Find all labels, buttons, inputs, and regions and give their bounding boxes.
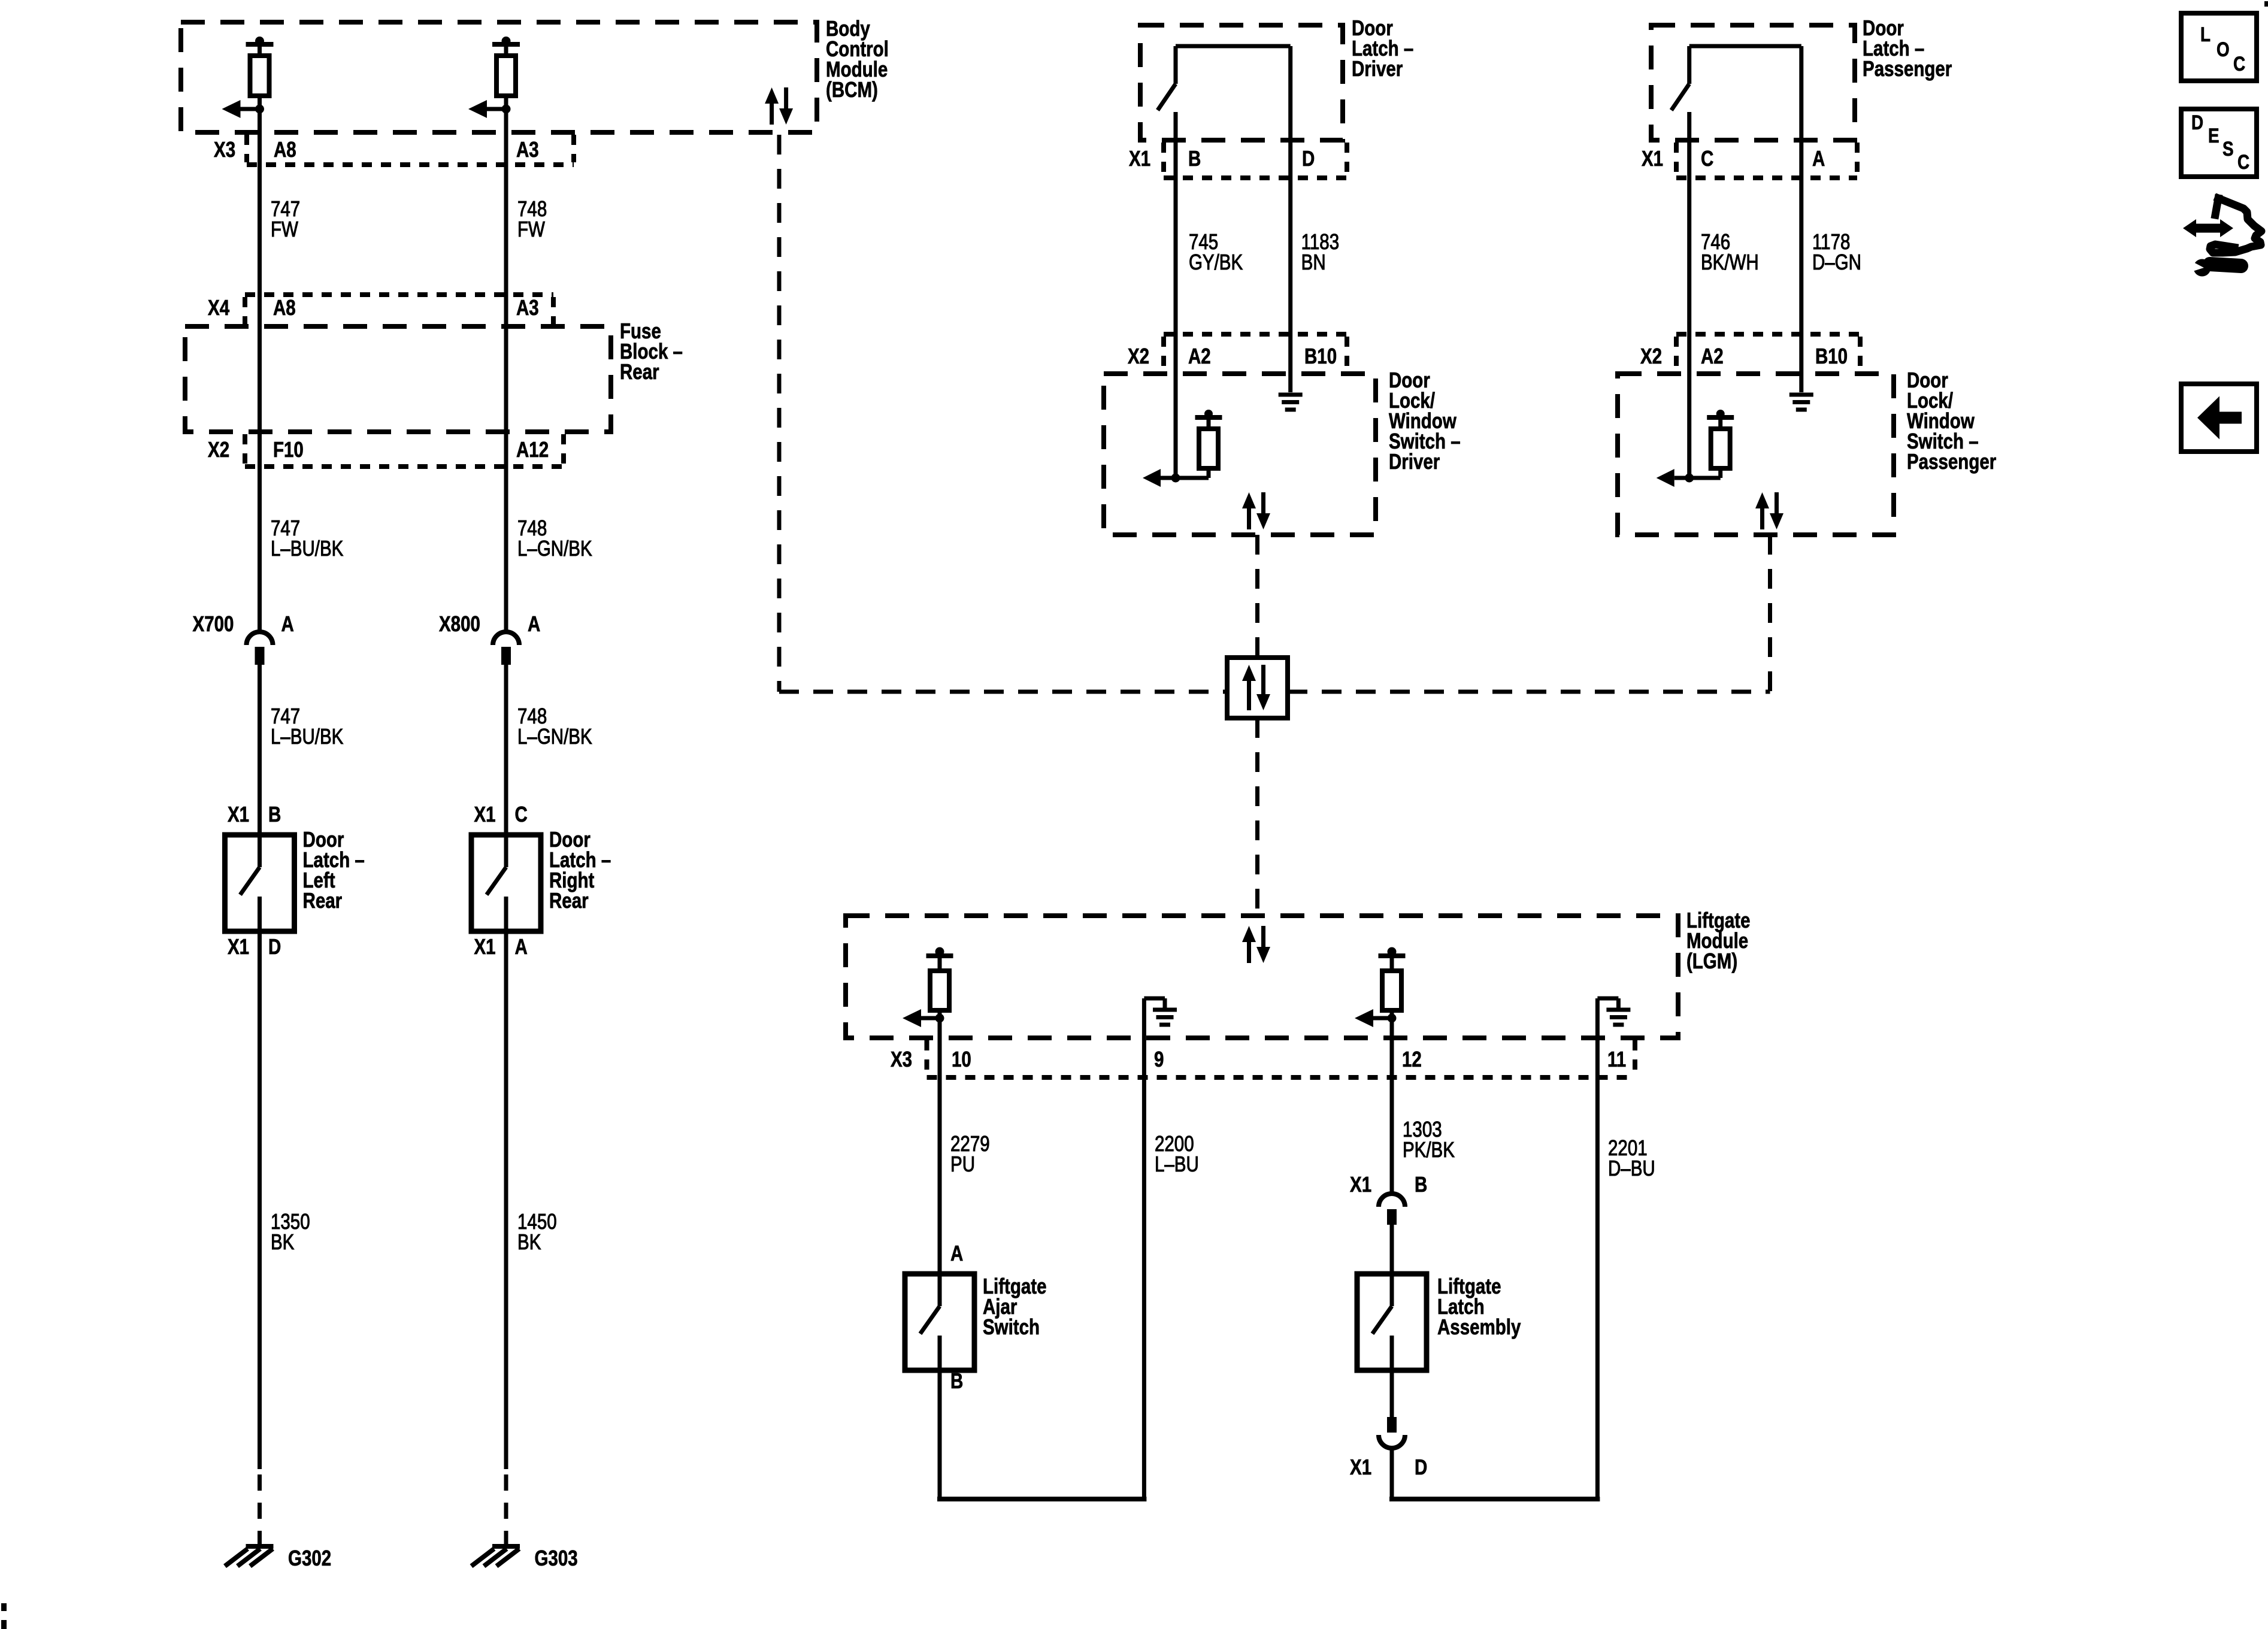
svg-text:L–BU/BK: L–BU/BK <box>271 536 343 560</box>
svg-text:A: A <box>281 611 294 635</box>
svg-text:G302: G302 <box>288 1546 331 1570</box>
pin 9 (LGM) <box>1154 1047 1164 1071</box>
connector band X2 (passenger switch) <box>1676 334 1860 371</box>
label: Door Lock/Window Switch - Driver <box>1389 368 1461 473</box>
svg-text:Rear: Rear <box>303 888 343 912</box>
svg-text:X1: X1 <box>1350 1172 1371 1196</box>
fuse/driver output symbol in BCM on circuit 748 <box>468 37 520 118</box>
component: Liftgate Latch Assembly box <box>1357 1274 1427 1370</box>
wire through fuse block 747 <box>258 326 262 432</box>
svg-text:O: O <box>2216 38 2230 60</box>
svg-text:GY/BK: GY/BK <box>1189 250 1243 274</box>
pin B10 (passenger switch) <box>1815 344 1848 368</box>
label: Fuse Block - Rear <box>620 319 683 383</box>
component: Door Latch - Left Rear switch box <box>225 835 295 931</box>
svg-text:A: A <box>1812 146 1825 170</box>
svg-text:A: A <box>515 934 528 958</box>
svg-text:Rear: Rear <box>549 888 589 912</box>
svg-text:10: 10 <box>952 1047 971 1071</box>
ground symbol in LGM (pin 11) <box>1597 998 1630 1038</box>
wire 1450 BK <box>504 931 508 1544</box>
pin B (latch assembly) <box>1415 1172 1427 1196</box>
connector band X1 (driver latch) <box>1164 143 1347 178</box>
connector band X2 (Fuse Block) dotted outline <box>245 434 564 467</box>
svg-text:L–GN/BK: L–GN/BK <box>517 724 592 748</box>
svg-text:Rear: Rear <box>620 359 659 383</box>
svg-text:B: B <box>950 1368 963 1392</box>
pin A12 <box>516 437 549 461</box>
module: Body Control Module (BCM) dashed box <box>181 22 817 132</box>
label X700 <box>193 611 234 635</box>
wire 1183 BN <box>1288 46 1292 392</box>
svg-text:FW: FW <box>271 217 298 241</box>
svg-text:12: 12 <box>1402 1047 1422 1071</box>
svg-text:Assembly: Assembly <box>1437 1315 1521 1339</box>
svg-text:D: D <box>2191 111 2203 134</box>
icon: connector view with wrench <box>2183 198 2261 277</box>
pin A (passenger latch) <box>1812 146 1825 170</box>
icon: DESC box <box>2181 109 2257 177</box>
connector band X2 (driver switch) <box>1164 334 1347 371</box>
wire label 748 L-GN/BK (lower) <box>517 704 592 748</box>
svg-text:X1: X1 <box>474 934 495 958</box>
label: Body Control Module (BCM) <box>826 16 889 101</box>
wire label 2200 L-BU <box>1155 1131 1199 1176</box>
svg-text:BK: BK <box>517 1230 541 1253</box>
serial data wire from BCM (vertical) <box>777 135 782 692</box>
label X2 (fuse block) <box>208 437 229 461</box>
wire label 1350 BK <box>271 1209 310 1253</box>
wire label 747 FW <box>271 196 300 241</box>
ground symbol inside driver switch (1183) <box>1279 395 1303 410</box>
connector X1 A row (right rear latch) <box>474 934 527 958</box>
connector X1 C row (right rear latch) <box>474 802 527 826</box>
svg-text:C: C <box>2237 150 2249 173</box>
svg-text:BN: BN <box>1301 250 1326 274</box>
svg-text:BK: BK <box>271 1230 294 1253</box>
wire label 1178 D-GN <box>1812 229 1861 274</box>
svg-text:X1: X1 <box>228 934 249 958</box>
pin 11 (LGM) <box>1607 1047 1626 1071</box>
serial data junction box <box>1227 658 1288 718</box>
wire from latch assembly D to circuit 2201 <box>1389 1448 1600 1499</box>
svg-text:C: C <box>515 802 528 826</box>
module: Door Latch - Passenger dashed box <box>1651 25 1855 140</box>
resistor/driver in LGM on circuit 1303 <box>1355 947 1406 1028</box>
wire label 1450 BK <box>517 1209 557 1253</box>
svg-text:X1: X1 <box>474 802 495 826</box>
pin D (latch assembly) <box>1415 1455 1427 1479</box>
pin B (ajar switch) <box>950 1368 963 1392</box>
svg-text:D–BU: D–BU <box>1608 1156 1655 1180</box>
label: Door Lock/Window Switch - Passenger <box>1907 368 1996 473</box>
wire 745 GY/BK <box>1174 112 1178 478</box>
serial data bus horizontal left <box>779 690 1227 694</box>
svg-text:X3: X3 <box>214 137 235 161</box>
serial data arrows in junction box <box>1242 665 1270 710</box>
ground G303 symbol <box>471 1546 520 1566</box>
label: Door Latch - Passenger <box>1863 16 1952 80</box>
serial data arrows (driver switch) <box>1242 492 1270 529</box>
svg-text:D: D <box>268 934 281 958</box>
ground G302 symbol <box>225 1546 274 1566</box>
svg-text:X700: X700 <box>193 611 234 635</box>
svg-text:B: B <box>268 802 281 826</box>
svg-text:A3: A3 <box>516 295 539 319</box>
serial data wire to Liftgate Module <box>1255 718 1259 916</box>
connector band X3 (LGM) <box>927 1040 1636 1077</box>
serial data bus horizontal right <box>1288 690 1770 694</box>
connector band X4 (Fuse Block) dotted outline <box>245 295 553 324</box>
label X2 (driver switch) <box>1128 344 1149 368</box>
resistor/driver in LGM on circuit 2279 <box>903 947 953 1028</box>
label X2 (passenger switch) <box>1640 344 1662 368</box>
svg-text:X1: X1 <box>1642 146 1663 170</box>
module: Door Lock/Window Switch - Driver dashed box <box>1104 374 1376 535</box>
module: Liftgate Module (LGM) dashed box <box>846 916 1678 1038</box>
wire label 747 L-BU/BK (upper) <box>271 516 343 560</box>
wire 2201 D-BU <box>1595 1038 1600 1499</box>
connector X1 B row (left rear latch) <box>228 802 281 826</box>
label G302 <box>288 1546 331 1570</box>
wire 1303 PK/BK upper <box>1390 1018 1394 1194</box>
svg-text:F10: F10 <box>273 437 304 461</box>
label X1 (driver latch) <box>1129 146 1150 170</box>
page edge mark top-right <box>2264 1 2268 7</box>
label X800 <box>439 611 480 635</box>
svg-text:9: 9 <box>1154 1047 1164 1071</box>
label: Liftgate Ajar Switch <box>983 1274 1047 1339</box>
pin A3 (fuse block X4) <box>516 295 539 319</box>
wire from ajar switch B to circuit 2200 <box>937 1370 1146 1499</box>
svg-text:X2: X2 <box>1640 344 1662 368</box>
resistor inside passenger switch <box>1707 410 1734 478</box>
switch inside Door Latch - Driver <box>1158 46 1291 110</box>
svg-text:B10: B10 <box>1815 344 1848 368</box>
label X1 (latch B) <box>1350 1172 1371 1196</box>
wire label 2279 PU <box>950 1131 990 1176</box>
svg-text:PU: PU <box>950 1152 975 1176</box>
svg-text:X4: X4 <box>208 295 230 319</box>
pin A8 (BCM X3) <box>274 137 296 161</box>
resistor inside driver switch <box>1195 410 1222 478</box>
label: Door Latch - Driver <box>1352 16 1413 80</box>
serial data wire from passenger switch <box>1768 535 1772 692</box>
component: Door Latch - Right Rear switch box <box>471 835 541 931</box>
svg-text:E: E <box>2208 124 2219 147</box>
wire 747 L-BU/BK upper segment <box>258 432 262 631</box>
connector X800 pin A inline connector symbol <box>493 632 519 665</box>
component: Liftgate Ajar Switch box <box>905 1274 974 1370</box>
wire label 747 L-BU/BK (lower) <box>271 704 343 748</box>
label: Liftgate Latch Assembly <box>1437 1274 1521 1339</box>
junction and arrow inside driver switch <box>1143 469 1209 487</box>
wire label 2201 D-BU <box>1608 1136 1655 1180</box>
svg-text:PK/BK: PK/BK <box>1403 1137 1455 1161</box>
svg-text:A2: A2 <box>1701 344 1724 368</box>
pin A (ajar switch) <box>950 1241 963 1265</box>
module: Fuse Block - Rear dashed box <box>185 326 611 432</box>
svg-text:X2: X2 <box>1128 344 1149 368</box>
svg-text:BK/WH: BK/WH <box>1701 250 1759 274</box>
switch inside Door Latch - Passenger <box>1672 46 1801 110</box>
svg-text:Driver: Driver <box>1352 56 1403 80</box>
wire label 748 L-GN/BK (upper) <box>517 516 592 560</box>
connector X1 pin B inline connector (liftgate latch) <box>1379 1194 1405 1225</box>
pin F10 <box>273 437 304 461</box>
svg-text:X1: X1 <box>1350 1455 1371 1479</box>
connector X700 pin A inline connector symbol <box>247 632 273 665</box>
svg-text:A: A <box>950 1241 963 1265</box>
svg-text:Passenger: Passenger <box>1863 56 1952 80</box>
icon: LOC box <box>2181 13 2257 81</box>
label: Door Latch - Left Rear <box>303 827 365 912</box>
icon: back arrow box <box>2181 384 2257 452</box>
pin A8 (fuse block X4) <box>273 295 296 319</box>
svg-text:G303: G303 <box>534 1546 577 1570</box>
wire 1350 BK <box>258 931 262 1544</box>
pin D (driver latch) <box>1302 146 1315 170</box>
connector band X1 (passenger latch) <box>1676 143 1857 178</box>
label X1 (passenger latch) <box>1642 146 1663 170</box>
svg-text:Switch: Switch <box>983 1315 1040 1339</box>
svg-text:X800: X800 <box>439 611 480 635</box>
page edge mark bottom-left <box>1 1603 7 1629</box>
svg-text:X1: X1 <box>228 802 249 826</box>
pin A (X800) <box>528 611 540 635</box>
module: Door Lock/Window Switch - Passenger dashed box <box>1618 374 1894 535</box>
svg-text:B: B <box>1415 1172 1427 1196</box>
svg-text:L: L <box>2200 23 2211 46</box>
wire label 745 GY/BK <box>1189 229 1243 274</box>
svg-text:C: C <box>1701 146 1713 170</box>
wire 748 L-GN/BK lower segment <box>504 665 508 835</box>
pin A2 (passenger switch) <box>1701 344 1724 368</box>
wire label 748 FW <box>517 196 547 241</box>
connector band X3 (BCM) dotted outline <box>247 135 574 165</box>
junction and arrow inside passenger switch <box>1657 469 1721 487</box>
serial data wire from driver switch <box>1255 535 1259 658</box>
serial data arrows (passenger switch) <box>1755 492 1783 529</box>
ground symbol in LGM (pin 9) <box>1144 998 1177 1038</box>
svg-text:X3: X3 <box>891 1047 912 1071</box>
svg-text:C: C <box>2233 52 2245 75</box>
wire 1303 below latch assembly <box>1390 1370 1394 1417</box>
wire label 746 BK/WH <box>1701 229 1759 274</box>
svg-text:(LGM): (LGM) <box>1686 949 1737 973</box>
svg-text:L–BU: L–BU <box>1155 1152 1199 1176</box>
pin A3 (BCM X3) <box>516 137 539 161</box>
pin B10 (driver switch) <box>1304 344 1337 368</box>
serial data arrows at BCM <box>765 87 793 125</box>
wire 748 L-GN/BK upper segment <box>504 432 508 631</box>
label: Liftgate Module (LGM) <box>1686 908 1751 973</box>
pin B (driver latch) <box>1188 146 1201 170</box>
svg-text:A: A <box>528 611 540 635</box>
svg-text:A12: A12 <box>516 437 549 461</box>
connector X1 D row (left rear latch) <box>228 934 281 958</box>
svg-text:B10: B10 <box>1304 344 1337 368</box>
pin 10 (LGM) <box>952 1047 971 1071</box>
svg-text:D–GN: D–GN <box>1812 250 1861 274</box>
label: Door Latch - Right Rear <box>549 827 611 912</box>
label X3 (LGM) <box>891 1047 912 1071</box>
pin 12 (LGM) <box>1402 1047 1422 1071</box>
svg-text:A8: A8 <box>274 137 296 161</box>
label X4 <box>208 295 230 319</box>
svg-text:Driver: Driver <box>1389 449 1440 473</box>
svg-text:FW: FW <box>517 217 545 241</box>
pin C (passenger latch) <box>1701 146 1713 170</box>
label G303 <box>534 1546 577 1570</box>
wire label 1303 PK/BK <box>1403 1117 1455 1161</box>
pin A (X700) <box>281 611 294 635</box>
svg-text:11: 11 <box>1607 1047 1626 1071</box>
svg-text:A2: A2 <box>1188 344 1211 368</box>
svg-text:B: B <box>1188 146 1201 170</box>
pin A2 (driver switch) <box>1188 344 1211 368</box>
svg-text:L–BU/BK: L–BU/BK <box>271 724 343 748</box>
svg-text:D: D <box>1415 1455 1427 1479</box>
svg-text:X1: X1 <box>1129 146 1150 170</box>
wire 1303 between connector and latch assembly <box>1390 1225 1394 1274</box>
svg-text:A8: A8 <box>273 295 296 319</box>
wire 746 BK/WH <box>1687 112 1691 478</box>
serial data arrows (LGM) <box>1242 926 1270 963</box>
wire 747 L-BU/BK lower segment <box>258 665 262 835</box>
svg-text:D: D <box>1302 146 1315 170</box>
wire through fuse block 748 <box>504 326 508 432</box>
svg-text:(BCM): (BCM) <box>826 77 878 101</box>
module: Door Latch - Driver dashed box <box>1140 25 1343 140</box>
svg-text:S: S <box>2222 137 2234 160</box>
wire label 1183 BN <box>1301 229 1339 274</box>
svg-text:Passenger: Passenger <box>1907 449 1996 473</box>
wire 2200 L-BU <box>1142 1038 1146 1499</box>
wire 748 FW vertical segment <box>504 109 508 326</box>
fuse/driver output symbol in BCM on circuit 747 <box>222 37 274 118</box>
label X3 <box>214 137 235 161</box>
wire 747 FW vertical segment <box>258 109 262 326</box>
ground symbol inside passenger switch (1178) <box>1789 395 1813 410</box>
connector X1 pin D inline connector (liftgate latch) <box>1379 1417 1405 1448</box>
wire 1178 D-GN <box>1799 46 1803 392</box>
label X1 (latch D) <box>1350 1455 1371 1479</box>
svg-text:X2: X2 <box>208 437 229 461</box>
wire 2279 PU <box>938 1018 942 1274</box>
svg-text:L–GN/BK: L–GN/BK <box>517 536 592 560</box>
svg-text:A3: A3 <box>516 137 539 161</box>
